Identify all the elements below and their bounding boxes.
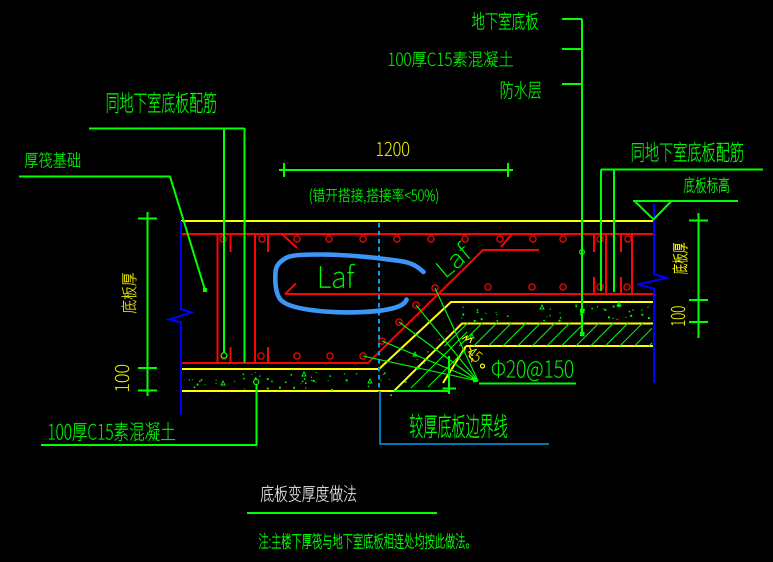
cushion label leader [41,384,257,445]
right dim text slab thickness [672,243,687,274]
right dim tick top [689,220,708,222]
top bar circle x329 [326,236,332,242]
right break edge line (blue) with zigzag [638,204,667,383]
right splice stub b bottom [620,277,622,294]
top bar circle x628 [625,236,631,242]
thick slab bottom rebar line [181,362,368,364]
label 100 C15 plain concrete bottom [49,422,175,441]
top bar circle x465 [462,236,468,242]
left rebar leader drop 2 [244,128,246,363]
right splice stub a bottom [593,277,595,294]
waterproof band bottom line [466,345,653,347]
thin bottom bar circle x563 [560,284,566,290]
left splice outer stub top [267,234,269,252]
thin bottom bar circle x488 [485,284,491,290]
top rebar line [181,233,653,235]
left dim text 100 [115,365,129,391]
note staggered lap [310,188,438,204]
concrete speckle dots [189,302,650,396]
freehand highlight loop around Laf [275,255,423,313]
layer leader dot cushion [580,309,584,313]
waterproof band left slope edge [443,346,466,383]
dim text 1200 [377,142,409,156]
label same-as-basement rebar right [632,142,743,162]
lap end tick bottom-left [285,284,296,295]
boundary label leader (cyan) [380,391,549,444]
left rebar label underline [89,128,245,130]
right dim tick bottom [689,321,708,323]
top bar circle x533 [530,236,536,242]
right rebar leader drop 1 [600,170,602,292]
thick bottom bar circle x330 [327,353,333,359]
left dim text slab thickness [121,273,136,313]
thicker-slab boundary dashed line [378,223,380,392]
raft leader end dot [203,288,207,292]
thick bottom bar circle x261 [258,353,264,359]
thick bottom bar circle x224 [221,353,227,359]
title [261,485,356,502]
slope wedge hatch 2 [428,349,466,387]
thick bottom bar circle x297 [294,353,300,359]
left splice box right bar [254,234,256,363]
ray to slope bar 399 [399,322,478,381]
top bar circle x431 [428,236,434,242]
label waterproof layer [501,81,541,99]
right splice box left bar [605,234,607,294]
ray to slope bar 363 [363,356,478,381]
label thicker slab boundary [410,414,507,438]
right rebar label underline [601,169,763,171]
label same-as-basement rebar left [107,92,216,113]
right dim text 100 [671,307,685,326]
top bar circle x223 [220,236,226,242]
right dim tick mid [689,299,708,301]
cushion leader end circle [254,379,259,384]
waterproof layer hatch lines [445,323,652,346]
left break edge line (blue) with zigzag [169,221,192,415]
right rebar leader drop 2 [613,170,615,293]
lap length Laf horizontal [320,264,355,288]
thin bottom bar circle x627 [624,284,630,290]
layer leader dot waterproof [580,332,584,336]
dim 1200 tick left [283,163,285,177]
ray to slope bar 382 [382,341,478,381]
top bar circle x397 [394,236,400,242]
left rebar leader end circle [221,353,227,359]
plain concrete label leader [562,48,582,50]
right splice stub b top [620,234,622,252]
degree circle [481,364,485,368]
left splice inner stub top [230,234,232,252]
left splice box left bar [217,234,219,363]
stagger tick on top rebar left [282,234,297,248]
top bar circle x500 [497,236,503,242]
layer leader dot slab [580,250,585,255]
top bar circle x563 [560,236,566,242]
label thick raft foundation [25,152,80,168]
left dim tick bottom [138,390,157,392]
dim 1200 tick right [507,163,509,177]
left splice outer stub bottom [267,347,269,363]
basement slab label leader [562,18,582,20]
phi label underline [479,383,576,385]
note line [259,533,469,549]
slope bars size [492,360,573,381]
thin bottom bar circle x532 [529,284,535,290]
waterproof label leader [562,83,582,85]
elevation line [633,200,738,202]
thick bottom bar circle x363 [360,353,366,359]
elevation triangle [635,201,672,220]
thin bottom bar circle x600 [597,284,603,290]
slab top surface line [181,220,653,222]
label 100 C15 plain concrete top [389,51,513,67]
top bar circle x262 [259,236,265,242]
slope bar circle 416 [413,302,419,308]
left rebar leader drop 1 [223,128,225,353]
right splice box right bar [631,234,633,294]
slope wedge hatch 1 [411,332,467,388]
slope bar circle 399 [396,319,402,325]
label basement slab [472,12,538,30]
thin slab bottom rebar lap line [285,293,653,295]
left dim tick top [138,218,157,220]
left dim tick mid [138,367,157,369]
top bar circle x297 [294,236,300,242]
bent-up bottom rebar along slope with top lap [368,250,539,363]
slope base line [394,390,450,392]
slope vertex tick [443,388,457,390]
thick slab bottom + step slope + thin slab bottom [181,302,653,369]
title underline [247,512,437,514]
slope bar circle 435 [432,285,438,291]
top bar circle x363 [360,236,366,242]
ray to slope bar 416 [416,305,478,381]
fan arrowhead [471,376,479,383]
dim 1200 line [279,169,513,171]
left dim line [147,212,149,396]
cushion bottom line with slope [181,324,653,392]
top bar circle x600 [597,236,603,242]
right splice stub a top [593,234,595,252]
left splice inner stub bottom [230,347,232,363]
slope bar circle 382 [379,338,385,344]
lap length Laf on slope [435,240,474,277]
stagger tick on top rebar right [501,234,512,247]
label slab elevation [684,177,729,193]
angle 45 [466,346,483,363]
angle squiggle leader [462,336,472,362]
right dim line [698,213,700,338]
layer leader vertical [581,19,583,334]
slope vertex vertical [448,356,450,394]
ray to slope bar 435 [435,288,478,381]
raft label leader [19,177,205,291]
